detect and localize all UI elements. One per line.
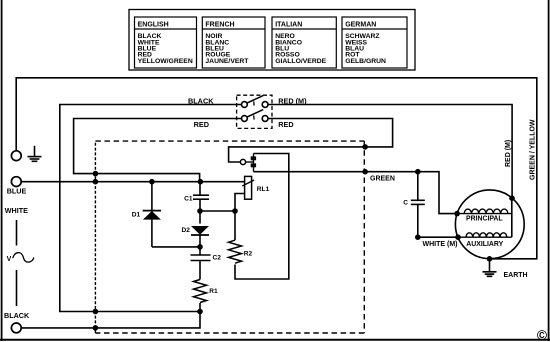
motor winding PRINCIPAL — [457, 209, 512, 214]
switch S1 enclosure (dashed) — [237, 95, 272, 128]
svg-text:WHITE: WHITE — [5, 206, 28, 215]
table cell FRENCH — [202, 17, 265, 68]
svg-text:C1: C1 — [184, 195, 193, 202]
dashed module box — [95, 141, 364, 333]
svg-text:RED: RED — [278, 120, 293, 129]
junction: auxiliary winding left — [455, 234, 461, 240]
capacitor C2 — [191, 247, 211, 280]
wire BLACK terminal to R1 bottom — [21, 303, 200, 328]
svg-text:WHITE (M): WHITE (M) — [423, 241, 458, 248]
svg-text:BLACK: BLACK — [188, 96, 214, 105]
svg-text:ITALIAN: ITALIAN — [275, 21, 302, 28]
AC source V stub bottom — [16, 270, 18, 306]
ground symbol (top-left) — [28, 146, 42, 162]
svg-text:ENGLISH: ENGLISH — [138, 21, 169, 28]
svg-text:©: © — [537, 328, 547, 342]
terminal earth (top-left circle) — [11, 151, 21, 161]
wire RED (M): switch to motor right vertical — [268, 105, 512, 199]
wire GREEN: contact bottom to motor — [254, 172, 458, 214]
diode D2 — [191, 211, 209, 247]
relay contact bar — [253, 154, 255, 172]
switch S1 pole 2 blade — [247, 110, 263, 118]
resistor R2 — [229, 211, 242, 263]
junction: capacitor C top on green wire — [415, 169, 421, 175]
wire RED lower: switch right, down into module to relay contact line — [229, 119, 393, 163]
svg-text:JAUNE/VERT: JAUNE/VERT — [205, 58, 249, 65]
AC source V stub top — [16, 220, 18, 246]
svg-text:BLACK: BLACK — [4, 311, 30, 320]
wire BLUE terminal to relay RL1 — [21, 181, 244, 183]
earth stem below motor — [489, 259, 491, 272]
wire C1 node to R2 top node — [200, 210, 235, 212]
junction: C1 top on blue wire — [198, 179, 204, 185]
svg-text:GERMAN: GERMAN — [345, 21, 376, 28]
wire RED: switch to left, down, right to C1 node — [74, 119, 242, 182]
switch S1 pole 1 blade — [247, 96, 263, 104]
motor winding AUXILIARY — [458, 233, 512, 237]
table cell ENGLISH — [135, 17, 197, 68]
wire green/yellow earth loop: terminal to top to right side to motor bottom — [16, 78, 537, 259]
wire D1 bottom to D2 bottom node — [152, 246, 200, 248]
switch S1 pole 1 contacts — [242, 102, 248, 108]
svg-text:C2: C2 — [213, 254, 222, 261]
svg-text:D1: D1 — [132, 212, 141, 219]
wire contact top to R2 bottom — [235, 154, 289, 280]
table cell ITALIAN — [272, 17, 336, 68]
resistor R1 — [194, 280, 207, 303]
wire C bottom to auxiliary winding — [418, 236, 458, 238]
junction: capacitor C bottom / white (M) node — [415, 234, 421, 240]
junction: red feed at module boundary — [93, 171, 99, 177]
junction: green wire at module boundary — [362, 169, 368, 175]
terminal BLACK — [11, 323, 21, 333]
switch S1 pole 2 contacts — [242, 116, 248, 122]
svg-text:GELB/GRUN: GELB/GRUN — [345, 58, 386, 65]
relay coil RL1 — [235, 176, 254, 211]
wire BLACK: switch to left rail down to bottom rail — [60, 105, 242, 312]
svg-text:FRENCH: FRENCH — [205, 21, 234, 28]
terminal BLUE — [11, 177, 21, 187]
svg-text:EARTH: EARTH — [504, 272, 528, 279]
language table outer box — [129, 10, 415, 71]
svg-text:YELLOW/GREEN: YELLOW/GREEN — [138, 58, 193, 65]
svg-text:GREEN: GREEN — [370, 175, 395, 182]
svg-text:R2: R2 — [244, 250, 253, 257]
svg-text:RED (M): RED (M) — [505, 140, 512, 167]
svg-text:R1: R1 — [209, 288, 218, 295]
junction: motor frame earth node — [487, 256, 493, 262]
svg-text:D2: D2 — [182, 227, 191, 234]
relay contact link — [246, 161, 254, 163]
capacitor C (motor) — [411, 172, 425, 238]
wire winding right ends junction — [511, 198, 513, 237]
svg-text:BLUE: BLUE — [7, 187, 27, 196]
junction: D1 top on blue wire — [149, 179, 155, 185]
svg-text:RED: RED — [194, 120, 209, 129]
svg-text:RL1: RL1 — [257, 186, 270, 193]
junction: blue wire at module boundary — [93, 179, 99, 185]
table cell GERMAN — [342, 17, 407, 68]
svg-text:V: V — [7, 256, 12, 263]
junction: red (M) at motor frame — [509, 195, 515, 201]
capacitor C1 — [193, 182, 209, 211]
junction: C1 bottom / D2 anode node — [197, 208, 203, 214]
junction: contact feed at module boundary — [362, 144, 368, 150]
svg-text:GREEN / YELLOW: GREEN / YELLOW — [529, 119, 536, 180]
relay contact fixed circle — [240, 159, 245, 164]
diode D1 — [143, 182, 161, 247]
junction: black rail at module boundary — [93, 309, 99, 315]
svg-text:PRINCIPAL: PRINCIPAL — [466, 215, 503, 222]
svg-text:GIALLO/VERDE: GIALLO/VERDE — [275, 58, 326, 65]
ground symbol EARTH — [483, 272, 497, 277]
junction: black terminal wire at module boundary — [93, 325, 99, 331]
junction: D2 cathode / C2 node — [197, 244, 203, 250]
motor circle — [455, 190, 524, 259]
junction: R1 bottom node — [197, 309, 203, 315]
svg-text:AUXILIARY: AUXILIARY — [466, 241, 503, 248]
svg-text:C: C — [403, 200, 408, 207]
junction: R2 top / RL1 coil node — [232, 208, 238, 214]
junction: principal winding left — [454, 211, 460, 217]
